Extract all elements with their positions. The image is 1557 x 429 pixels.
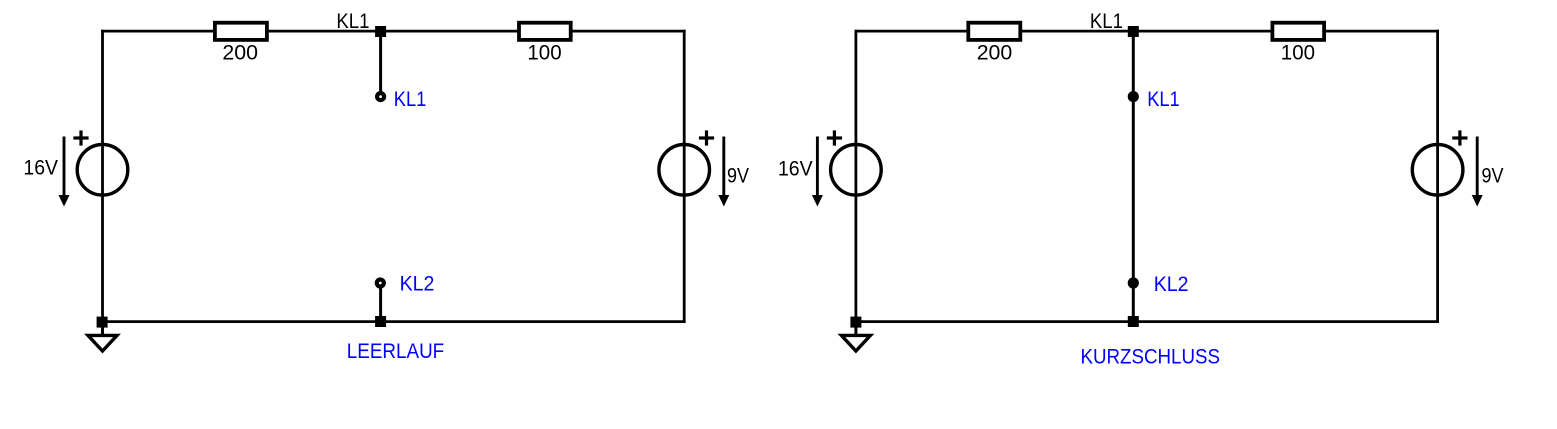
ground symbol (circuit 2) [841,335,870,351]
svg-text:KL1: KL1 [394,87,427,111]
V2 plus polarity mark [699,130,714,145]
svg-text:100: 100 [1281,41,1315,65]
wire: circuit 1 right rail [683,30,686,323]
voltage source V3 16V (circuit 2) [831,145,882,196]
junction: circuit 1 KL2 stub on bottom rail [375,316,386,327]
wire: circuit 2 top rail [855,30,1440,33]
wire: circuit 2 short between KL1 and KL2 [1132,37,1135,317]
wire: circuit 1 bottom rail [101,320,686,323]
svg-text:KL1: KL1 [1090,9,1123,33]
junction: circuit 1 ground node on bottom rail [97,317,108,328]
V2 current arrow [718,137,729,207]
terminal KL1 pin (circuit 2) [1130,93,1137,100]
svg-text:9V: 9V [1482,164,1505,188]
resistor R1 200 (circuit 1) [215,23,267,40]
svg-text:KL1: KL1 [336,9,369,33]
wire: circuit 2 right rail [1436,30,1439,323]
voltage source V2 9V (circuit 1) [659,145,710,196]
wire: circuit 1 stub from terminal KL2 to bottom junction [379,288,382,317]
V3 plus polarity mark [827,130,842,145]
svg-text:16V: 16V [23,156,58,180]
voltage source V4 9V (circuit 2) [1412,145,1463,196]
wire: circuit 2 ground stub [854,327,857,336]
terminal KL2 pin (circuit 2) [1130,280,1137,287]
svg-text:KURZSCHLUSS: KURZSCHLUSS [1081,345,1221,369]
svg-text:KL2: KL2 [400,272,435,296]
terminal KL2 open pin (circuit 1) [377,280,384,287]
wire: circuit 2 left rail [855,30,858,323]
svg-text:200: 200 [222,41,258,65]
wire: circuit 1 top rail [101,30,686,33]
svg-text:16V: 16V [778,156,813,180]
V4 current arrow [1472,137,1483,207]
wire: circuit 2 bottom rail [855,320,1440,323]
wire: circuit 1 left rail [101,30,104,323]
V4 plus polarity mark [1452,130,1467,145]
resistor R4 100 (circuit 2) [1272,23,1324,40]
svg-text:LEERLAUF: LEERLAUF [347,339,444,363]
resistor R3 200 (circuit 2) [968,23,1020,40]
svg-text:KL1: KL1 [1147,87,1180,111]
wire: circuit 1 stub from top junction to terminal KL1 [379,37,382,94]
junction: circuit 2 ground node on bottom rail [850,317,861,328]
ground symbol (circuit 1) [88,335,117,351]
junction: circuit 2 node KL1 on top rail [1128,26,1139,37]
resistor R2 100 (circuit 1) [519,23,571,40]
V3 current arrow [812,137,823,207]
svg-text:9V: 9V [727,164,750,188]
V1 current arrow [59,137,70,207]
voltage source V1 16V (circuit 1) [77,145,128,196]
wire: circuit 1 ground stub [101,327,104,336]
terminal KL1 open pin (circuit 1) [377,93,384,100]
junction: circuit 2 short wire on bottom rail [1128,316,1139,327]
svg-text:KL2: KL2 [1154,272,1189,296]
junction: circuit 1 node KL1 on top rail [375,26,386,37]
V1 plus polarity mark [73,130,88,145]
svg-text:100: 100 [527,41,561,65]
svg-text:200: 200 [977,41,1013,65]
